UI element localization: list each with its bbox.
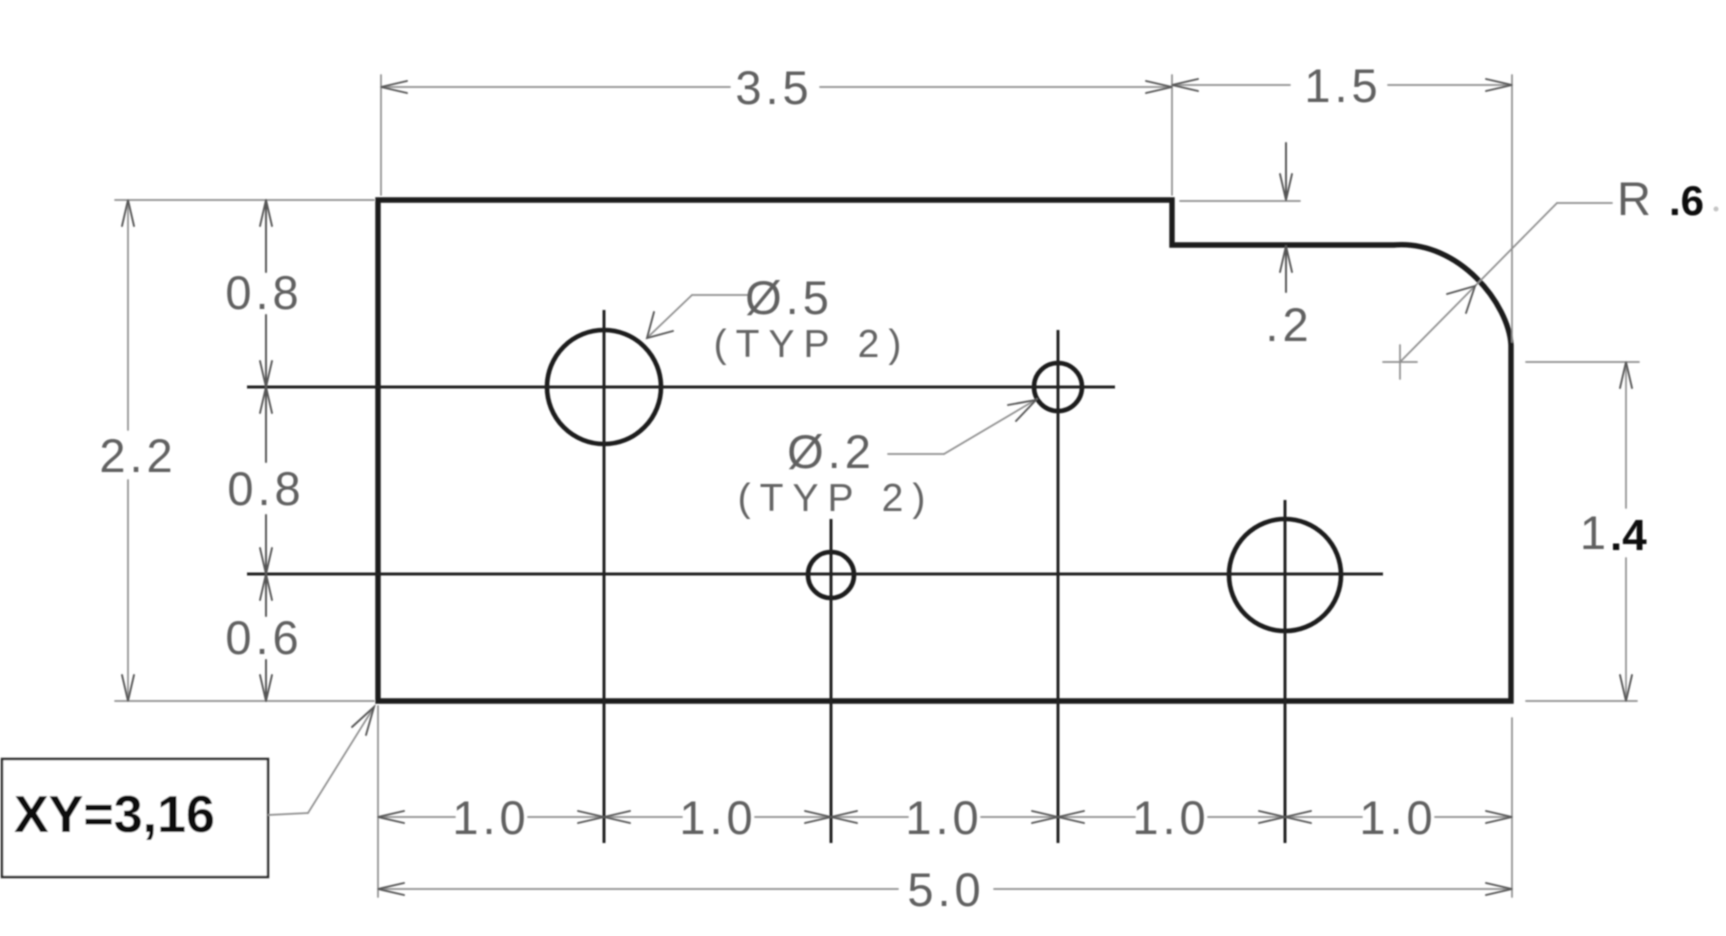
- centerline vertical hole4: [1284, 500, 1287, 843]
- svg-text:3.5: 3.5: [735, 61, 812, 114]
- dimension chain 0.8 / 0.8 / 0.6 left: [225, 200, 304, 701]
- svg-text:1.0: 1.0: [905, 791, 982, 844]
- svg-text:1: 1: [1580, 506, 1610, 559]
- bottom chain dimension 1.0 x5: [378, 706, 1512, 897]
- XY=3,16 callout box: [2, 707, 374, 877]
- centerline vertical hole1: [603, 310, 606, 843]
- hole C2 small (831,574): [808, 552, 854, 598]
- centerline lower horizontal: [247, 573, 1383, 576]
- leader and label R .6: [1383, 172, 1719, 379]
- svg-text:1.5: 1.5: [1304, 59, 1381, 112]
- dimension 1.4 right: [1526, 362, 1647, 701]
- dimension 3.5 top: [381, 61, 1172, 195]
- dimension .2 step: [1180, 143, 1313, 351]
- dimension 5.0 bottom: [378, 863, 1512, 916]
- centerline vertical hole2: [830, 519, 833, 843]
- hole C4 large (1285,574): [1229, 519, 1341, 631]
- svg-text:.2: .2: [1265, 298, 1312, 351]
- svg-text:2.2: 2.2: [99, 429, 176, 482]
- svg-text:0.8: 0.8: [227, 462, 304, 515]
- centerline vertical hole3: [1057, 330, 1060, 843]
- svg-text:Ø.2: Ø.2: [787, 425, 875, 478]
- svg-text:XY=3,16: XY=3,16: [14, 786, 215, 844]
- leader and label dia .5 TYP 2: [647, 271, 910, 366]
- dimension 2.2 left: [99, 200, 374, 701]
- centerline upper horizontal: [247, 386, 1115, 389]
- svg-text:0.6: 0.6: [225, 611, 302, 664]
- svg-text:R: R: [1617, 172, 1655, 225]
- svg-text:0.8: 0.8: [225, 266, 302, 319]
- svg-text:Ø.5: Ø.5: [745, 271, 833, 324]
- svg-text:1.0: 1.0: [452, 791, 529, 844]
- svg-text:(TYP 2): (TYP 2): [738, 477, 935, 520]
- part outline: [378, 200, 1511, 701]
- svg-text:1.0: 1.0: [679, 791, 756, 844]
- hole C3 small (1058,387): [1034, 363, 1082, 411]
- svg-text:.4: .4: [1610, 511, 1647, 560]
- svg-text:(TYP 2): (TYP 2): [714, 323, 911, 366]
- svg-text:1.0: 1.0: [1359, 791, 1436, 844]
- svg-text:5.0: 5.0: [907, 863, 984, 916]
- svg-text:.6: .6: [1669, 177, 1704, 224]
- dimension 1.5 top right: [1172, 59, 1512, 342]
- hole C1 large (604,387): [547, 330, 661, 444]
- svg-text:1.0: 1.0: [1132, 791, 1209, 844]
- leader and label dia .2 TYP 2: [738, 399, 1037, 520]
